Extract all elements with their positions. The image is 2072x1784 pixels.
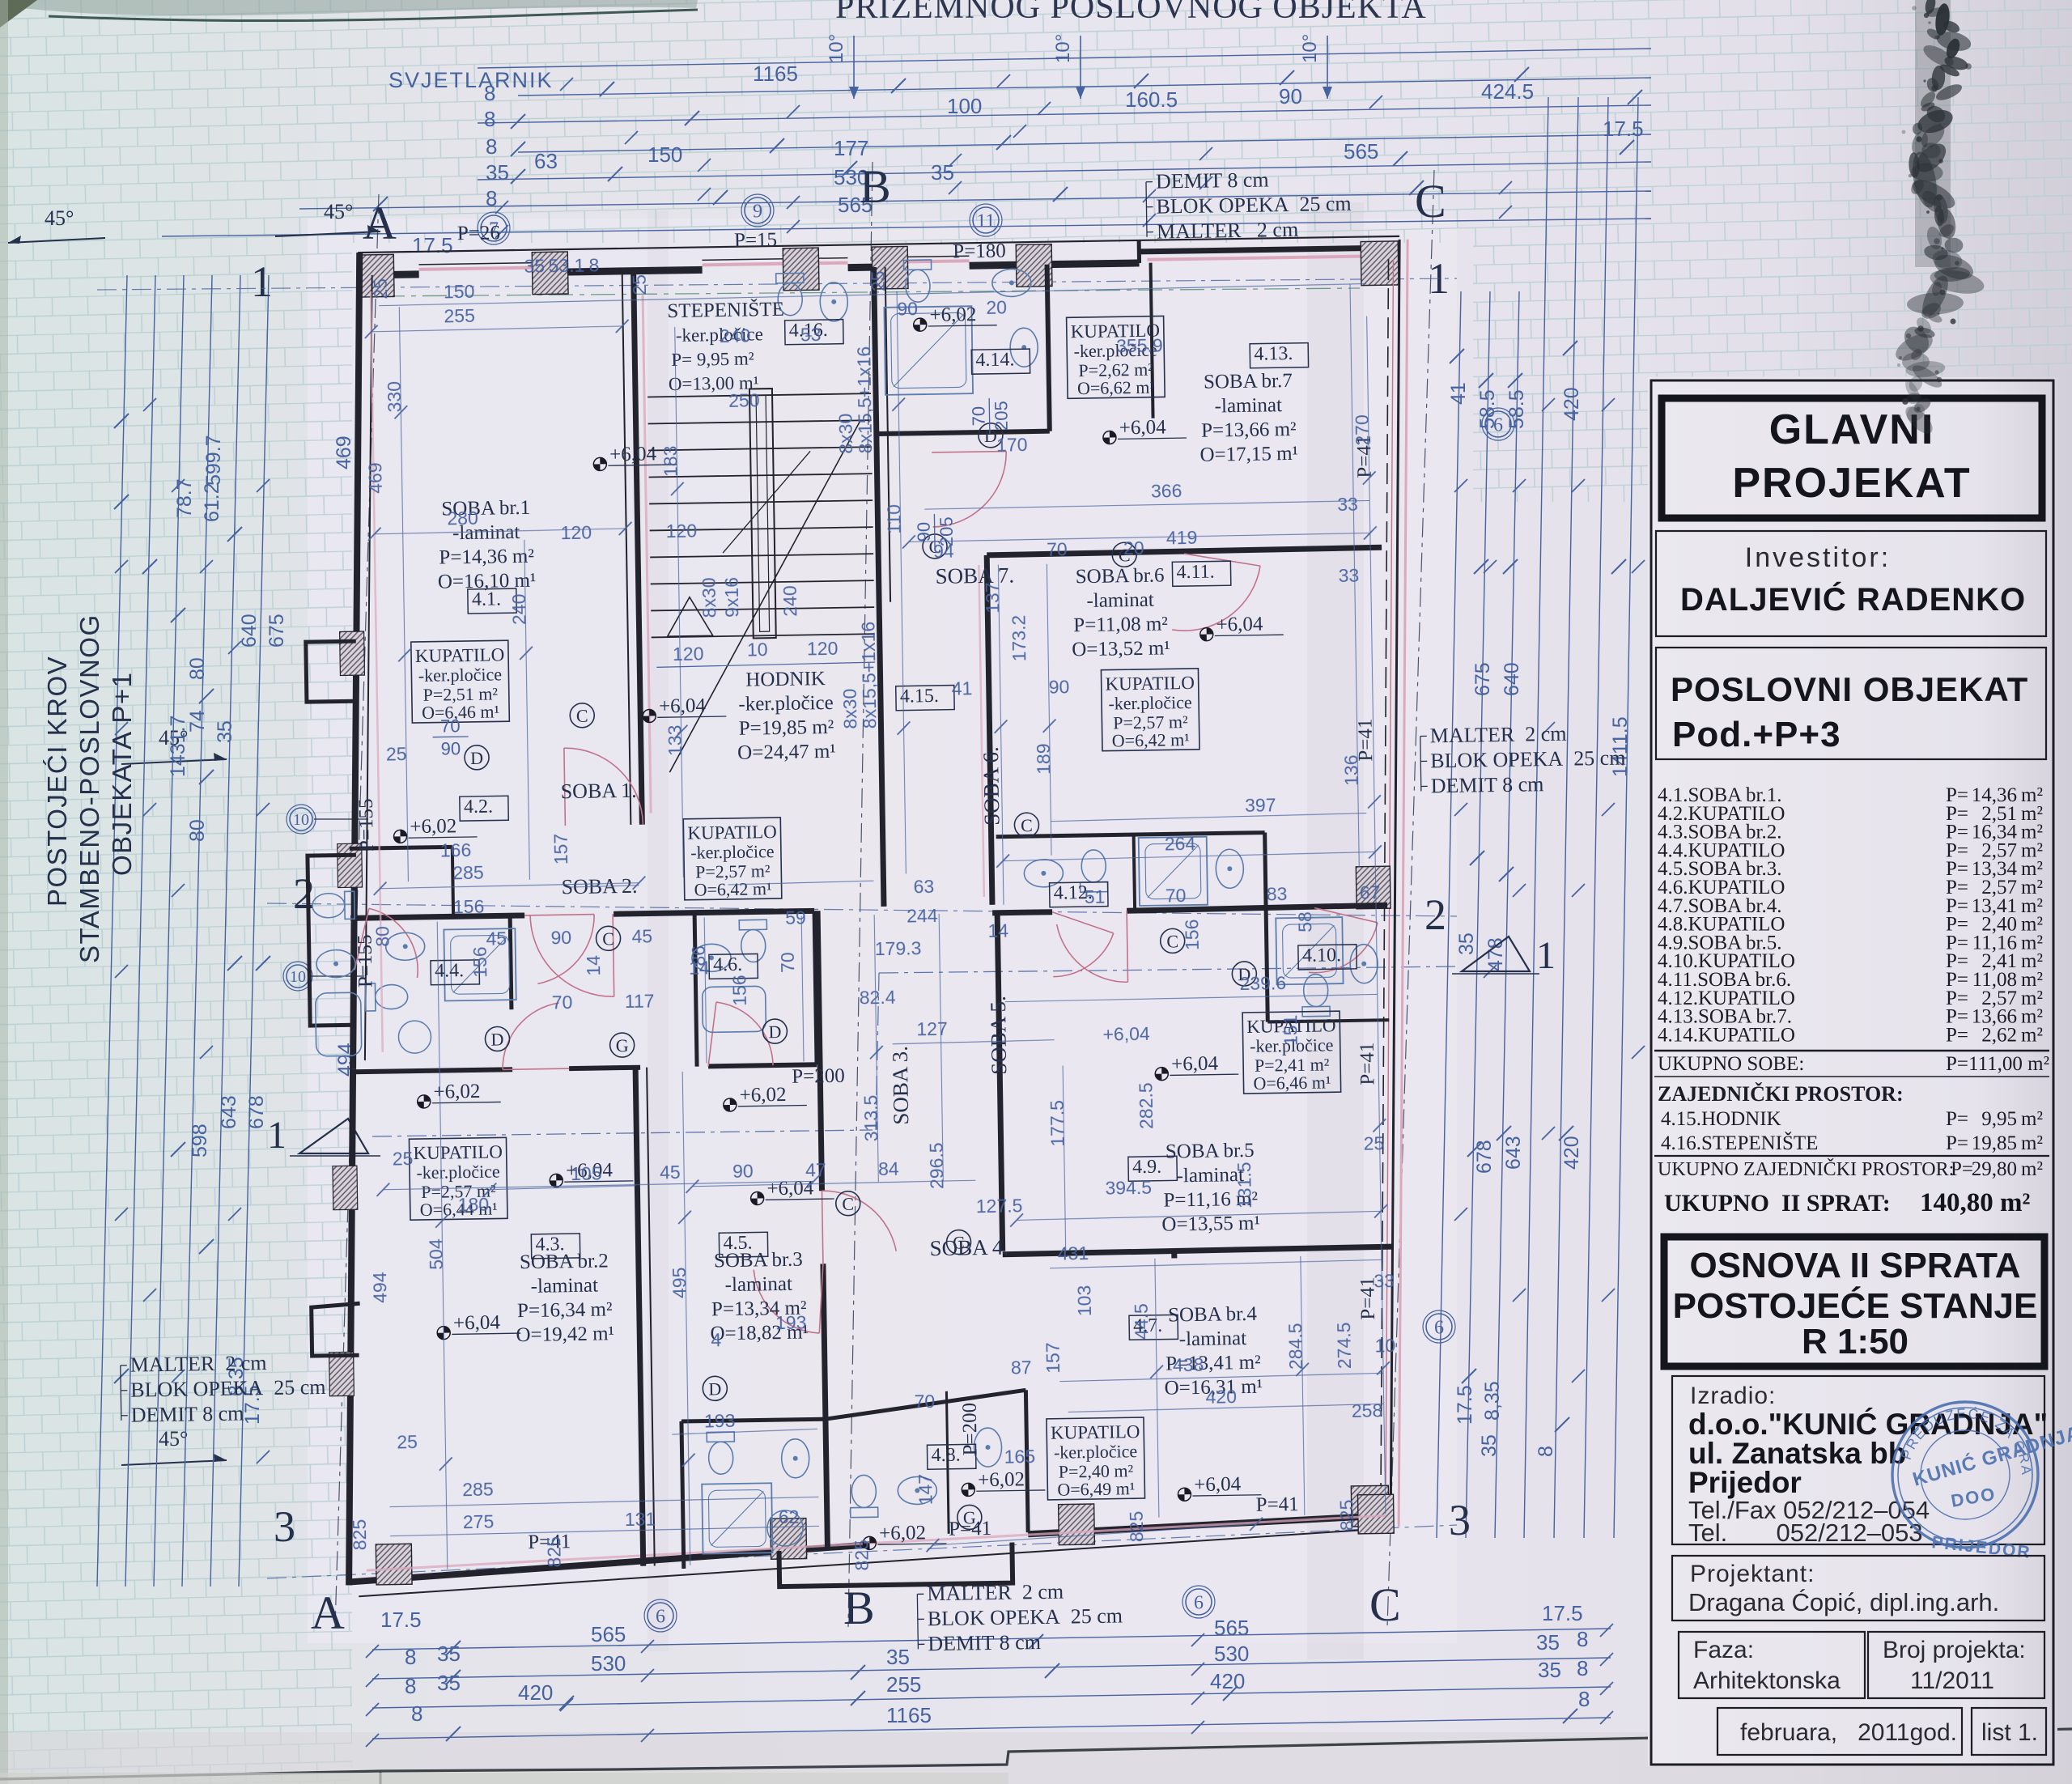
svg-text:+6,04: +6,04 bbox=[453, 1311, 501, 1334]
outer wall left bbox=[340, 253, 372, 1068]
roof brick hatch top band bbox=[352, 0, 1473, 243]
svg-text:-laminat: -laminat bbox=[1179, 1327, 1247, 1350]
svg-text:136: 136 bbox=[1340, 754, 1362, 786]
svg-text:244: 244 bbox=[906, 905, 938, 927]
svg-text:4: 4 bbox=[711, 1329, 721, 1350]
fixtures: bath 4.10 bbox=[1276, 917, 1343, 984]
svg-text:SOBA br.5: SOBA br.5 bbox=[1165, 1140, 1255, 1163]
investitor box bbox=[1656, 531, 2046, 636]
svg-text:-ker.pločice: -ker.pločice bbox=[416, 1161, 500, 1183]
svg-text:10: 10 bbox=[747, 639, 768, 660]
svg-text:SVJETLARNIK: SVJETLARNIK bbox=[388, 68, 554, 92]
svg-text:list 1.: list 1. bbox=[1981, 1719, 2038, 1746]
svg-text:+6,02: +6,02 bbox=[929, 304, 976, 326]
svg-text:103: 103 bbox=[1073, 1285, 1095, 1317]
svg-text:105: 105 bbox=[571, 1162, 602, 1184]
svg-text:58: 58 bbox=[1294, 911, 1315, 932]
svg-text:UKUPNO II SPRAT:: UKUPNO II SPRAT: bbox=[1664, 1190, 1891, 1217]
svg-text:41: 41 bbox=[1447, 382, 1470, 405]
svg-text:C: C bbox=[953, 1232, 965, 1252]
svg-text:127.5: 127.5 bbox=[976, 1195, 1023, 1217]
svg-text:DEMIT 8 cm: DEMIT 8 cm bbox=[928, 1630, 1041, 1655]
svg-text:678: 678 bbox=[245, 1095, 268, 1129]
svg-text:14: 14 bbox=[987, 920, 1008, 941]
svg-text:420: 420 bbox=[1210, 1669, 1245, 1693]
svg-text:70: 70 bbox=[968, 406, 988, 427]
svg-text:STAMBENO-POSLOVNOG: STAMBENO-POSLOVNOG bbox=[74, 614, 104, 963]
svg-text:4.11.: 4.11. bbox=[1176, 562, 1215, 584]
bottom dimension lines bbox=[372, 1629, 1611, 1650]
svg-text:90: 90 bbox=[440, 738, 461, 758]
svg-text:-ker.pločice: -ker.pločice bbox=[418, 664, 503, 686]
svg-text:6: 6 bbox=[656, 1606, 665, 1627]
svg-text:87: 87 bbox=[1011, 1357, 1032, 1378]
svg-text:8: 8 bbox=[405, 1645, 416, 1669]
title block outer border bbox=[1651, 380, 2053, 1765]
svg-text:-laminat: -laminat bbox=[530, 1275, 598, 1298]
svg-text:SOBA 5.: SOBA 5. bbox=[986, 996, 1012, 1075]
svg-text:6: 6 bbox=[1493, 414, 1503, 435]
svg-text:P=19,85 m²: P=19,85 m² bbox=[739, 716, 834, 740]
svg-text:2: 2 bbox=[1424, 890, 1446, 939]
svg-text:193: 193 bbox=[704, 1410, 736, 1432]
svg-text:80: 80 bbox=[186, 819, 209, 842]
svg-text:KUPATILO: KUPATILO bbox=[1105, 673, 1195, 694]
svg-text:205: 205 bbox=[991, 401, 1012, 431]
svg-text:240: 240 bbox=[720, 325, 751, 346]
svg-text:C: C bbox=[1415, 175, 1446, 227]
svg-text:825: 825 bbox=[1336, 1500, 1358, 1531]
svg-text:394.5: 394.5 bbox=[1105, 1177, 1152, 1199]
svg-text:35: 35 bbox=[1478, 1434, 1501, 1457]
svg-text:4.6.: 4.6. bbox=[713, 954, 742, 976]
svg-text:6: 6 bbox=[1434, 1317, 1444, 1338]
svg-text:530: 530 bbox=[1214, 1642, 1249, 1666]
svg-text:296.5: 296.5 bbox=[926, 1142, 948, 1189]
svg-text:275: 275 bbox=[463, 1511, 495, 1533]
svg-text:469: 469 bbox=[333, 435, 355, 469]
svg-text:O=6,42 m¹: O=6,42 m¹ bbox=[694, 878, 771, 900]
svg-text:420: 420 bbox=[1560, 1136, 1583, 1170]
svg-text:280: 280 bbox=[447, 508, 478, 529]
svg-text:675: 675 bbox=[1471, 662, 1494, 696]
svg-text:-ker.pločice: -ker.pločice bbox=[690, 841, 775, 863]
left wall bathroom bump-outs bbox=[301, 641, 367, 1356]
svg-text:240: 240 bbox=[508, 593, 530, 625]
svg-text:70: 70 bbox=[914, 1391, 935, 1412]
paper left edge bbox=[0, 0, 8, 1784]
svg-text:45: 45 bbox=[486, 928, 507, 949]
svg-text:675: 675 bbox=[265, 614, 288, 648]
svg-text:+6,04: +6,04 bbox=[1171, 1053, 1219, 1076]
svg-text:PRIZEMNOG POSLOVNOG OBJEKTA: PRIZEMNOG POSLOVNOG OBJEKTA bbox=[835, 0, 1427, 26]
svg-text:D: D bbox=[768, 1022, 781, 1042]
svg-text:17.5: 17.5 bbox=[380, 1608, 422, 1632]
interior faint dim lines bbox=[372, 326, 622, 332]
svg-text:P=200: P=200 bbox=[959, 1403, 982, 1456]
svg-text:A: A bbox=[311, 1586, 345, 1639]
svg-text:120: 120 bbox=[665, 520, 697, 542]
svg-text:4.10.: 4.10. bbox=[1302, 945, 1341, 966]
svg-text:m²: m² bbox=[2021, 1158, 2043, 1180]
svg-text:366: 366 bbox=[1151, 480, 1182, 502]
svg-text:33: 33 bbox=[1337, 494, 1358, 515]
svg-text:O=6,46 m¹: O=6,46 m¹ bbox=[1253, 1072, 1331, 1094]
svg-text:+6,04: +6,04 bbox=[659, 694, 707, 717]
svg-text:4.9.: 4.9. bbox=[1132, 1157, 1161, 1179]
svg-text:264: 264 bbox=[1165, 833, 1196, 855]
svg-text:147: 147 bbox=[915, 1474, 936, 1506]
svg-text:643: 643 bbox=[218, 1095, 240, 1129]
svg-text:424.5: 424.5 bbox=[1481, 79, 1534, 104]
svg-text:53: 53 bbox=[800, 324, 822, 345]
svg-text:150: 150 bbox=[647, 142, 682, 167]
svg-text:-ker.pločice: -ker.pločice bbox=[1108, 692, 1192, 714]
svg-text:53.1: 53.1 bbox=[548, 255, 584, 277]
svg-text:+6,04: +6,04 bbox=[1102, 1023, 1150, 1045]
svg-text:90: 90 bbox=[914, 522, 934, 542]
svg-text:90: 90 bbox=[550, 927, 571, 948]
svg-text:140,80 m²: 140,80 m² bbox=[1920, 1188, 2030, 1217]
svg-text:ZAJEDNIČKI PROSTOR:: ZAJEDNIČKI PROSTOR: bbox=[1658, 1082, 1904, 1106]
svg-text:239.6: 239.6 bbox=[1239, 972, 1286, 994]
svg-text:8x15,5+1x16: 8x15,5+1x16 bbox=[857, 622, 880, 729]
svg-text:4.14.KUPATILO: 4.14.KUPATILO bbox=[1658, 1024, 1795, 1046]
svg-text:14: 14 bbox=[583, 955, 604, 976]
svg-text:156: 156 bbox=[1181, 919, 1203, 950]
svg-text:C: C bbox=[842, 1194, 854, 1214]
svg-text:131.5: 131.5 bbox=[1233, 1162, 1255, 1208]
svg-text:1165: 1165 bbox=[753, 62, 798, 86]
svg-text:70: 70 bbox=[552, 992, 573, 1013]
svg-text:8: 8 bbox=[484, 107, 495, 131]
SOBA5 left wall and bottom bbox=[997, 913, 1003, 1251]
svg-text:+6,04: +6,04 bbox=[1216, 614, 1263, 636]
date / list boxes bbox=[1717, 1708, 1962, 1755]
svg-text:84: 84 bbox=[878, 1158, 899, 1179]
svg-text:4.16.STEPENIŠTE: 4.16.STEPENIŠTE bbox=[1661, 1131, 1818, 1154]
svg-text:P=16,34 m²: P=16,34 m² bbox=[517, 1298, 613, 1322]
svg-text:35: 35 bbox=[486, 160, 509, 185]
svg-text:255: 255 bbox=[886, 1672, 921, 1697]
svg-text:80: 80 bbox=[186, 657, 209, 680]
svg-text:O=17,15 m¹: O=17,15 m¹ bbox=[1199, 443, 1298, 466]
svg-text:420: 420 bbox=[1205, 1386, 1237, 1408]
svg-text:70: 70 bbox=[777, 952, 798, 973]
svg-text:313.5: 313.5 bbox=[860, 1094, 882, 1141]
svg-text:82.4: 82.4 bbox=[860, 987, 896, 1009]
svg-text:419: 419 bbox=[1166, 527, 1198, 549]
svg-text:825: 825 bbox=[543, 1536, 565, 1568]
svg-text:17.5: 17.5 bbox=[412, 233, 453, 257]
svg-text:33: 33 bbox=[1338, 565, 1359, 586]
svg-text:8x15,5+1x16: 8x15,5+1x16 bbox=[853, 346, 876, 454]
svg-text:179.3: 179.3 bbox=[875, 937, 922, 959]
svg-text:640: 640 bbox=[238, 614, 261, 648]
svg-text:4.15.HODNIK: 4.15.HODNIK bbox=[1661, 1108, 1781, 1130]
svg-text:282.5: 282.5 bbox=[1135, 1082, 1157, 1129]
svg-text:-ker.pločice: -ker.pločice bbox=[738, 692, 834, 716]
svg-text:+6,04: +6,04 bbox=[766, 1177, 814, 1200]
svg-text:KUPATILO: KUPATILO bbox=[1051, 1421, 1140, 1443]
outer wall top bbox=[358, 236, 1399, 253]
svg-text:OBJEKATA P+1: OBJEKATA P+1 bbox=[107, 672, 137, 876]
svg-text:25: 25 bbox=[370, 278, 391, 299]
svg-text:DEMIT 8 cm: DEMIT 8 cm bbox=[131, 1401, 244, 1426]
faza / broj projekta boxes bbox=[1679, 1632, 1865, 1698]
svg-text:270: 270 bbox=[1352, 414, 1374, 446]
svg-text:9: 9 bbox=[753, 201, 762, 222]
svg-text:59: 59 bbox=[785, 907, 806, 928]
row-2 spine wall bbox=[350, 915, 524, 918]
svg-text:86: 86 bbox=[688, 945, 709, 966]
svg-text:17.5: 17.5 bbox=[1542, 1601, 1583, 1625]
svg-text:173.2: 173.2 bbox=[1008, 615, 1030, 662]
svg-text:-laminat: -laminat bbox=[1214, 394, 1282, 417]
svg-text:MALTER 2 cm: MALTER 2 cm bbox=[1430, 722, 1567, 748]
svg-text:397: 397 bbox=[1245, 794, 1276, 816]
svg-text:BLOK OPEKA 25 cm: BLOK OPEKA 25 cm bbox=[1430, 746, 1626, 773]
svg-text:78.7: 78.7 bbox=[173, 478, 196, 518]
section marker triangles bbox=[299, 1119, 368, 1153]
svg-text:11/2011: 11/2011 bbox=[1910, 1667, 1994, 1694]
svg-text:240: 240 bbox=[779, 585, 801, 617]
svg-text:438: 438 bbox=[1173, 1354, 1204, 1376]
svg-text:Arhitektonska: Arhitektonska bbox=[1693, 1667, 1841, 1694]
roof brick hatch above title block bbox=[1651, 0, 2072, 376]
fixtures: top near stair bbox=[776, 273, 805, 316]
svg-text:G: G bbox=[616, 1035, 629, 1056]
top dimension lines bbox=[478, 49, 1651, 68]
svg-text:8: 8 bbox=[486, 186, 497, 210]
svg-text:Projektant:: Projektant: bbox=[1690, 1561, 1815, 1587]
svg-text:70: 70 bbox=[440, 716, 461, 736]
wall right of SOBA3 bbox=[817, 911, 822, 1191]
svg-text:1: 1 bbox=[251, 257, 273, 306]
svg-text:2: 2 bbox=[293, 869, 315, 918]
svg-text:MALTER 2 cm: MALTER 2 cm bbox=[1157, 218, 1299, 244]
svg-text:Izradio:: Izradio: bbox=[1690, 1383, 1776, 1409]
svg-text:35: 35 bbox=[524, 255, 545, 276]
fixtures: bath 4.14 (shower, toilet, sink) bbox=[884, 306, 973, 395]
title block background bbox=[1648, 377, 2057, 1766]
svg-text:61.2: 61.2 bbox=[201, 482, 223, 522]
svg-text:45°: 45° bbox=[159, 1427, 188, 1451]
svg-text:BLOK OPEKA 25 cm: BLOK OPEKA 25 cm bbox=[130, 1375, 326, 1402]
GLAVNI PROJEKAT box bbox=[1662, 398, 2042, 518]
svg-text:10°: 10° bbox=[1052, 34, 1074, 63]
svg-text:DEMIT 8 cm: DEMIT 8 cm bbox=[1431, 772, 1544, 797]
svg-text:29,80: 29,80 bbox=[1972, 1158, 2017, 1180]
svg-text:HODNIK: HODNIK bbox=[745, 668, 826, 691]
outer wall bottom bbox=[350, 1544, 869, 1582]
svg-text:D: D bbox=[470, 748, 483, 768]
svg-text:44.5: 44.5 bbox=[1131, 1303, 1153, 1340]
right dimension lines bbox=[1437, 291, 1461, 1538]
svg-text:330: 330 bbox=[384, 381, 405, 413]
izradio box bbox=[1672, 1376, 2044, 1544]
svg-text:25: 25 bbox=[1363, 1132, 1384, 1153]
svg-text:8: 8 bbox=[411, 1701, 422, 1726]
svg-text:258: 258 bbox=[1352, 1400, 1383, 1421]
svg-text:285: 285 bbox=[462, 1479, 494, 1501]
svg-text:83: 83 bbox=[1267, 883, 1288, 904]
svg-text:530: 530 bbox=[591, 1651, 626, 1676]
svg-text:+6,04: +6,04 bbox=[609, 443, 657, 465]
svg-text:156: 156 bbox=[469, 946, 491, 978]
svg-text:+6,02: +6,02 bbox=[410, 815, 456, 838]
svg-text:565: 565 bbox=[591, 1622, 626, 1646]
svg-text:45: 45 bbox=[660, 1162, 681, 1183]
svg-text:B: B bbox=[860, 160, 891, 213]
svg-text:177.5: 177.5 bbox=[1047, 1100, 1068, 1147]
svg-text:P=155: P=155 bbox=[355, 798, 378, 852]
svg-text:-laminat: -laminat bbox=[1086, 589, 1154, 612]
svg-text:P=26: P=26 bbox=[457, 222, 500, 244]
svg-text:8: 8 bbox=[486, 134, 497, 159]
svg-text:O=6,62 m¹: O=6,62 m¹ bbox=[1077, 377, 1155, 399]
svg-text:C: C bbox=[1021, 815, 1033, 835]
svg-text:90: 90 bbox=[897, 298, 918, 319]
svg-text:25: 25 bbox=[629, 274, 650, 295]
fixtures: bath 4.2 (left bump) bbox=[312, 891, 355, 920]
svg-text:4.3.: 4.3. bbox=[535, 1234, 564, 1255]
svg-text:8: 8 bbox=[1535, 1446, 1557, 1457]
svg-text:2,62: 2,62 bbox=[1981, 1024, 2017, 1046]
bath 4.12 cluster walls bbox=[996, 833, 1265, 837]
svg-text:8,35: 8,35 bbox=[1481, 1381, 1504, 1421]
svg-text:Tel. 052/212–053: Tel. 052/212–053 bbox=[1688, 1519, 1923, 1547]
svg-text:599.7: 599.7 bbox=[202, 435, 225, 486]
svg-text:825: 825 bbox=[851, 1540, 873, 1571]
svg-text:165: 165 bbox=[1004, 1446, 1035, 1468]
svg-text:177: 177 bbox=[834, 136, 868, 160]
svg-text:+6,02: +6,02 bbox=[978, 1468, 1025, 1491]
svg-text:80: 80 bbox=[372, 926, 393, 947]
svg-text:170: 170 bbox=[996, 434, 1028, 456]
grid axis dash-dot lines bbox=[335, 194, 379, 1627]
svg-text:4.5.: 4.5. bbox=[723, 1233, 752, 1255]
svg-text:4.15.: 4.15. bbox=[900, 686, 939, 707]
svg-text:KUPATILO: KUPATILO bbox=[415, 644, 505, 666]
svg-text:+6,02: +6,02 bbox=[879, 1522, 926, 1544]
svg-text:35: 35 bbox=[886, 1645, 910, 1669]
svg-text:420: 420 bbox=[518, 1680, 553, 1705]
svg-text:3: 3 bbox=[1449, 1496, 1471, 1544]
svg-text:P=13,66 m²: P=13,66 m² bbox=[1201, 418, 1297, 442]
interior walls bbox=[634, 271, 643, 825]
svg-text:R 1:50: R 1:50 bbox=[1802, 1322, 1909, 1361]
svg-text:825: 825 bbox=[349, 1519, 371, 1551]
svg-text:UKUPNO ZAJEDNIČKI PROSTOR:: UKUPNO ZAJEDNIČKI PROSTOR: bbox=[1658, 1158, 1954, 1180]
paper bottom edge line bbox=[0, 1729, 2072, 1779]
svg-text:643: 643 bbox=[1502, 1136, 1525, 1170]
svg-text:598: 598 bbox=[189, 1123, 211, 1157]
svg-text:25: 25 bbox=[393, 1148, 414, 1169]
svg-text:4.8.: 4.8. bbox=[931, 1445, 960, 1467]
svg-text:166: 166 bbox=[440, 839, 472, 861]
svg-text:20: 20 bbox=[986, 296, 1007, 317]
svg-text:127: 127 bbox=[916, 1018, 948, 1040]
svg-text:45: 45 bbox=[631, 925, 652, 946]
svg-text:C: C bbox=[1369, 1578, 1401, 1631]
svg-text:25: 25 bbox=[397, 1431, 418, 1452]
svg-text:156: 156 bbox=[453, 896, 485, 918]
svg-text:431: 431 bbox=[1058, 1242, 1089, 1264]
svg-text:193: 193 bbox=[775, 1312, 807, 1334]
svg-text:120: 120 bbox=[807, 638, 839, 660]
svg-text:8: 8 bbox=[588, 254, 599, 275]
svg-text:565: 565 bbox=[1344, 139, 1378, 164]
svg-text:355.9: 355.9 bbox=[1116, 334, 1163, 356]
svg-text:Broj projekta:: Broj projekta: bbox=[1883, 1637, 2026, 1663]
top wall hatch blocks bbox=[358, 254, 394, 297]
svg-text:D: D bbox=[490, 1029, 503, 1049]
svg-text:94: 94 bbox=[933, 541, 954, 562]
svg-text:183: 183 bbox=[660, 445, 681, 477]
svg-text:P= 9,95 m²: P= 9,95 m² bbox=[671, 348, 754, 370]
bath 4.2 cluster walls bbox=[350, 847, 452, 848]
svg-text:10°: 10° bbox=[826, 34, 847, 63]
svg-text:-laminat: -laminat bbox=[724, 1273, 792, 1296]
svg-text:m²: m² bbox=[2021, 1108, 2043, 1130]
level markers bbox=[593, 443, 677, 471]
svg-text:4.2.: 4.2. bbox=[464, 796, 493, 818]
svg-text:SOBA 6.: SOBA 6. bbox=[979, 746, 1004, 826]
svg-text:131: 131 bbox=[625, 1508, 656, 1530]
svg-text:19,85: 19,85 bbox=[1972, 1132, 2017, 1154]
svg-text:504: 504 bbox=[425, 1238, 447, 1270]
svg-text:P=: P= bbox=[1946, 1132, 1968, 1154]
svg-text:O=13,52 m¹: O=13,52 m¹ bbox=[1072, 637, 1170, 661]
svg-text:Faza:: Faza: bbox=[1693, 1637, 1754, 1663]
svg-text:P=41: P=41 bbox=[1357, 1042, 1379, 1085]
svg-text:POSTOJEĆI KROV: POSTOJEĆI KROV bbox=[42, 656, 72, 907]
svg-text:137: 137 bbox=[982, 582, 1004, 614]
svg-text:17.5: 17.5 bbox=[1454, 1385, 1476, 1425]
svg-text:4.4.: 4.4. bbox=[435, 960, 464, 982]
svg-text:O=6,49 m¹: O=6,49 m¹ bbox=[1057, 1478, 1135, 1500]
svg-text:70: 70 bbox=[1165, 885, 1187, 906]
svg-text:8: 8 bbox=[1577, 1656, 1588, 1680]
door arcs bbox=[564, 747, 643, 826]
svg-text:20: 20 bbox=[1123, 537, 1144, 559]
svg-text:90: 90 bbox=[1279, 84, 1302, 108]
circled door letters bbox=[465, 745, 489, 770]
KUPATILO boxes bbox=[411, 640, 510, 723]
svg-text:SOBA 1.: SOBA 1. bbox=[560, 779, 636, 803]
svg-text:255: 255 bbox=[444, 305, 475, 327]
MALTER annotations bbox=[1146, 182, 1147, 237]
fixtures: bath 4.8 bbox=[707, 1432, 735, 1475]
svg-text:KUPATILO: KUPATILO bbox=[413, 1141, 503, 1163]
svg-text:274.5: 274.5 bbox=[1333, 1322, 1355, 1369]
OSNOVA II SPRATA box bbox=[1664, 1237, 2044, 1366]
svg-text:O=19,42 m¹: O=19,42 m¹ bbox=[516, 1323, 614, 1346]
svg-text:+6,02: +6,02 bbox=[739, 1084, 786, 1107]
svg-text:KUPATILO: KUPATILO bbox=[687, 822, 777, 843]
fixtures: bath 4.6 bbox=[739, 920, 767, 962]
wall between SOBA2 and SOBA3 bbox=[635, 1068, 643, 1566]
svg-text:47: 47 bbox=[805, 1159, 826, 1180]
svg-text:151: 151 bbox=[1280, 1015, 1301, 1047]
svg-text:P=: P= bbox=[1946, 1024, 1968, 1046]
svg-text:565: 565 bbox=[1214, 1616, 1249, 1640]
svg-text:A: A bbox=[363, 197, 397, 249]
svg-text:UKUPNO SOBE:: UKUPNO SOBE: bbox=[1658, 1053, 1804, 1075]
svg-text:10: 10 bbox=[290, 968, 306, 986]
svg-text:SOBA br.7: SOBA br.7 bbox=[1204, 370, 1293, 393]
